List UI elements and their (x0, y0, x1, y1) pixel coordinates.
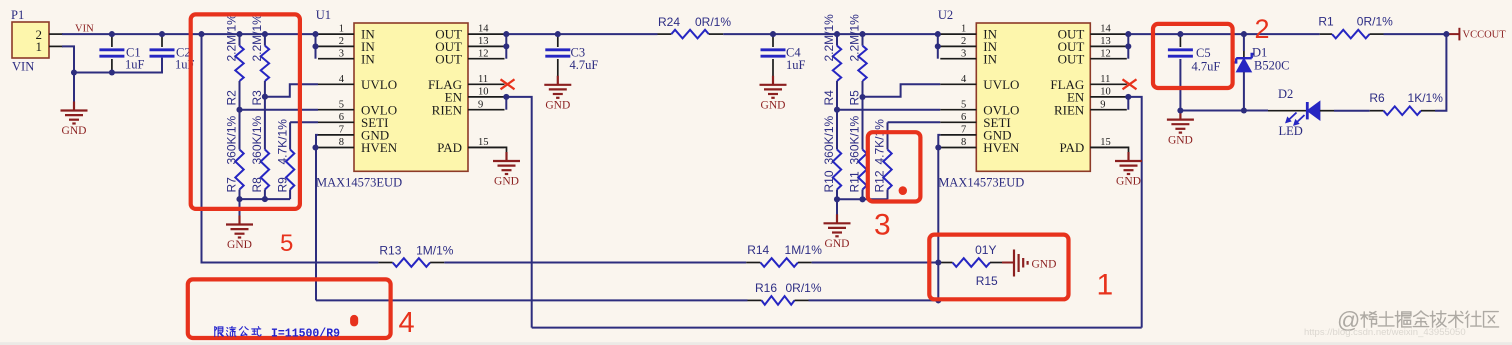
svg-text:1K/1%: 1K/1% (1408, 91, 1444, 105)
wire bottom bus (240, 198, 291, 200)
resistor R13 (378, 244, 453, 267)
resistor R1 (1318, 15, 1393, 39)
svg-text:360K/1%: 360K/1% (250, 115, 264, 164)
wire GND rail to D2 (1180, 110, 1268, 112)
svg-text:R6: R6 (1369, 91, 1385, 105)
capacitor C2 (150, 34, 195, 72)
svg-text:1: 1 (36, 39, 43, 54)
svg-text:R11: R11 (848, 171, 862, 192)
ground GND1 under P1 (61, 73, 88, 138)
wire R4 to R10 (836, 81, 838, 150)
wire R16 to junction (809, 299, 939, 301)
wire OVLO divider tap (837, 109, 940, 111)
wire U2 IN pins (937, 34, 939, 59)
wire bottom bus (837, 198, 888, 200)
svg-text:GND: GND (1168, 135, 1193, 147)
svg-text:1M/1%: 1M/1% (416, 244, 454, 258)
svg-text:2.2M/1%: 2.2M/1% (848, 14, 862, 62)
wire U1 IN pins (315, 34, 317, 59)
svg-text:R2: R2 (225, 90, 239, 106)
svg-text:R10: R10 (822, 170, 836, 192)
svg-text:R15: R15 (976, 274, 998, 288)
wire UVLO divider tap (863, 84, 941, 96)
svg-text:R14: R14 (747, 243, 769, 257)
svg-text:httpsː//blog.csdn.net/weixin_4: httpsː//blog.csdn.net/weixin_43955050 (1304, 327, 1466, 338)
wire R2 to R7 (239, 81, 241, 150)
svg-text:4.7K/1%: 4.7K/1% (873, 119, 887, 165)
wire U1 OUT pins (505, 34, 507, 59)
watermark (1337, 307, 1499, 333)
wire SETI tap (888, 121, 941, 123)
svg-text:R8: R8 (250, 177, 264, 193)
wire R16 row (316, 299, 748, 301)
svg-text:1uF: 1uF (786, 58, 806, 72)
wire P1 pin1 to bottom rail (62, 46, 162, 72)
svg-text:MAX14573EUD: MAX14573EUD (316, 176, 402, 190)
svg-text:2: 2 (1255, 14, 1270, 44)
svg-text:VIN: VIN (12, 60, 34, 74)
capacitor C4 (761, 34, 806, 76)
svg-text:1M/1%: 1M/1% (785, 243, 823, 257)
svg-text:0R/1%: 0R/1% (695, 15, 731, 29)
svg-text:4.7uF: 4.7uF (570, 58, 599, 72)
resistor R4 (822, 14, 841, 106)
wire VIN drop to R13 (202, 34, 379, 262)
svg-text:GND: GND (494, 176, 519, 188)
svg-text:U2: U2 (938, 8, 953, 22)
svg-text:3: 3 (874, 209, 891, 242)
annotation box 5 (191, 14, 300, 209)
svg-text:P1: P1 (11, 8, 24, 22)
wire R14 to junction (812, 262, 939, 264)
op-amp U2 MAX14573EUD (938, 8, 1127, 190)
resistor R2 (225, 14, 244, 106)
wire U2 OUT pins (1127, 34, 1129, 59)
wire U2 EN/RIEN (1127, 97, 1129, 110)
svg-text:1uF: 1uF (125, 58, 145, 72)
diode D2 LED (1268, 87, 1334, 138)
annotation box 1 (929, 235, 1068, 300)
svg-text:R13: R13 (379, 244, 401, 258)
connector P1 (11, 8, 63, 74)
svg-text:GND: GND (825, 238, 850, 250)
ground under C3 (544, 76, 571, 112)
resistor R7 (225, 115, 244, 199)
resistor R24 (658, 15, 732, 38)
svg-text:0R/1%: 0R/1% (785, 281, 821, 295)
power port VCCOUT (1446, 28, 1506, 41)
wire R5 to R11 (862, 81, 864, 150)
svg-text:2.2M/1%: 2.2M/1% (225, 14, 239, 62)
svg-text:R3: R3 (250, 90, 264, 106)
ground under C4 (760, 76, 787, 112)
svg-text:MAX14573EUD: MAX14573EUD (938, 176, 1024, 190)
wire U1 output rail (506, 33, 657, 35)
capacitor C1 (99, 34, 144, 72)
ground U2 PAD (1090, 147, 1142, 187)
wire VCCOUT riser (1435, 34, 1446, 111)
annotation box 4 (188, 279, 391, 338)
wire U1 EN/RIEN (505, 97, 507, 110)
ground U1 PAD (468, 147, 520, 187)
svg-text:U1: U1 (316, 8, 331, 22)
svg-text:D2: D2 (1278, 87, 1293, 101)
svg-text:R16: R16 (755, 281, 777, 295)
resistor R9 (275, 119, 294, 199)
svg-text:4.7uF: 4.7uF (1192, 60, 1221, 74)
svg-text:R9: R9 (275, 177, 289, 193)
svg-text:0R/1%: 0R/1% (1357, 15, 1393, 29)
wire OVLO divider tap (240, 109, 319, 111)
svg-text:GND: GND (545, 99, 570, 111)
svg-text:D1: D1 (1252, 46, 1267, 60)
svg-text:01Y: 01Y (975, 243, 996, 257)
svg-text:2.2M/1%: 2.2M/1% (250, 14, 264, 62)
wire R1 to VCCOUT (1384, 33, 1447, 35)
svg-text:I=11500/R9: I=11500/R9 (271, 327, 340, 340)
svg-text:360K/1%: 360K/1% (822, 115, 836, 164)
svg-text:B520C: B520C (1254, 59, 1289, 73)
svg-text:GND: GND (62, 125, 87, 137)
wire D2 to R6 (1334, 110, 1370, 112)
svg-text:GND: GND (761, 99, 786, 111)
svg-text:VIN: VIN (75, 23, 94, 34)
resistor R11 (848, 115, 867, 199)
annotation capsule in box 4 (350, 315, 358, 327)
svg-text:5: 5 (280, 230, 293, 257)
note current-limit formula (215, 327, 340, 341)
ground 01Y rotated at R15 (1002, 250, 1056, 277)
diode D1 B520C (1234, 34, 1290, 110)
svg-text:360K/1%: 360K/1% (225, 115, 239, 164)
svg-text:VCCOUT: VCCOUT (1463, 30, 1507, 41)
wire U2 output rail (1128, 33, 1319, 35)
resistor R3 (250, 14, 269, 106)
svg-text:GND: GND (1116, 176, 1141, 188)
wire R24 to U2 (723, 33, 938, 35)
svg-text:2.2M/1%: 2.2M/1% (822, 14, 836, 62)
svg-text:GND: GND (1032, 258, 1057, 270)
wire SETI tap (290, 121, 318, 123)
wire U1 GND/HVEN drop (316, 135, 318, 301)
svg-text:R1: R1 (1318, 15, 1334, 29)
no-connect X U1 pin11 (501, 79, 515, 89)
wire R13 to R14 (444, 262, 746, 264)
resistor R14 (746, 243, 822, 267)
svg-text:GND: GND (227, 239, 252, 251)
annotation box 2 (1153, 24, 1233, 88)
svg-text:1: 1 (1097, 269, 1114, 302)
svg-text:LED: LED (1279, 124, 1303, 138)
annotation box 3 (868, 132, 921, 201)
svg-text:R7: R7 (225, 177, 239, 193)
wire UVLO divider tap (265, 84, 318, 96)
resistor R15 (938, 243, 1002, 288)
resistor R6 (1369, 91, 1443, 115)
ground under C5 (1167, 111, 1194, 147)
capacitor C3 (545, 34, 598, 76)
ground under R10 (824, 199, 851, 250)
resistor R8 (250, 115, 269, 199)
resistor R16 (748, 281, 822, 305)
bottom strip (0, 342, 1512, 345)
svg-text:R12: R12 (873, 170, 887, 192)
svg-text:360K/1%: 360K/1% (848, 115, 862, 164)
op-amp U1 MAX14573EUD (316, 8, 505, 190)
wire VIN rail (62, 33, 316, 35)
ground under R7 (226, 199, 253, 251)
wire EN bus bottom (532, 327, 1142, 329)
svg-text:C5: C5 (1196, 46, 1211, 60)
annotation dot in box 3 (899, 186, 907, 195)
capacitor C5 (1168, 34, 1220, 110)
svg-text:R24: R24 (658, 15, 680, 29)
wire U2 GND/HVEN drop (938, 135, 940, 301)
wire R3 to R8 (264, 81, 266, 150)
resistor R12 (873, 119, 892, 199)
svg-text:R4: R4 (822, 90, 836, 106)
svg-text:4.7K/1%: 4.7K/1% (275, 119, 289, 165)
resistor R10 (822, 115, 841, 199)
no-connect X U2 pin11 (1123, 79, 1137, 89)
resistor R5 (848, 14, 867, 106)
svg-text:4: 4 (399, 307, 415, 339)
